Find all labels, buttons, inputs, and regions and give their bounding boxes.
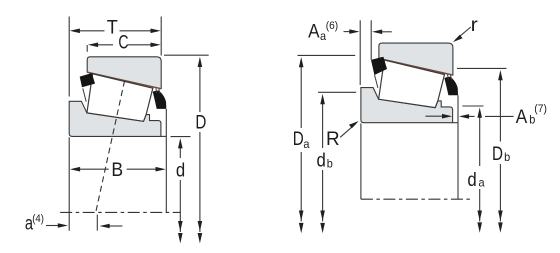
svg-text:D: D: [492, 142, 503, 164]
svg-text:b: b: [504, 152, 510, 164]
svg-text:a: a: [479, 177, 486, 189]
svg-text:b: b: [529, 114, 535, 126]
svg-text:(7): (7): [534, 103, 547, 115]
svg-text:C: C: [118, 31, 128, 53]
svg-text:(4): (4): [32, 213, 44, 225]
svg-text:d: d: [467, 169, 476, 190]
svg-text:a: a: [320, 31, 327, 43]
svg-text:R: R: [326, 129, 340, 150]
svg-text:D: D: [195, 111, 206, 133]
svg-text:a: a: [303, 139, 310, 151]
svg-text:d: d: [317, 149, 326, 170]
svg-text:D: D: [293, 127, 304, 149]
svg-text:T: T: [107, 16, 119, 38]
svg-text:(6): (6): [326, 20, 338, 32]
svg-text:A: A: [308, 20, 320, 42]
svg-text:r: r: [471, 14, 478, 36]
svg-text:A: A: [516, 105, 528, 127]
svg-text:B: B: [111, 158, 123, 180]
svg-text:b: b: [327, 158, 333, 170]
svg-text:d: d: [176, 159, 185, 180]
